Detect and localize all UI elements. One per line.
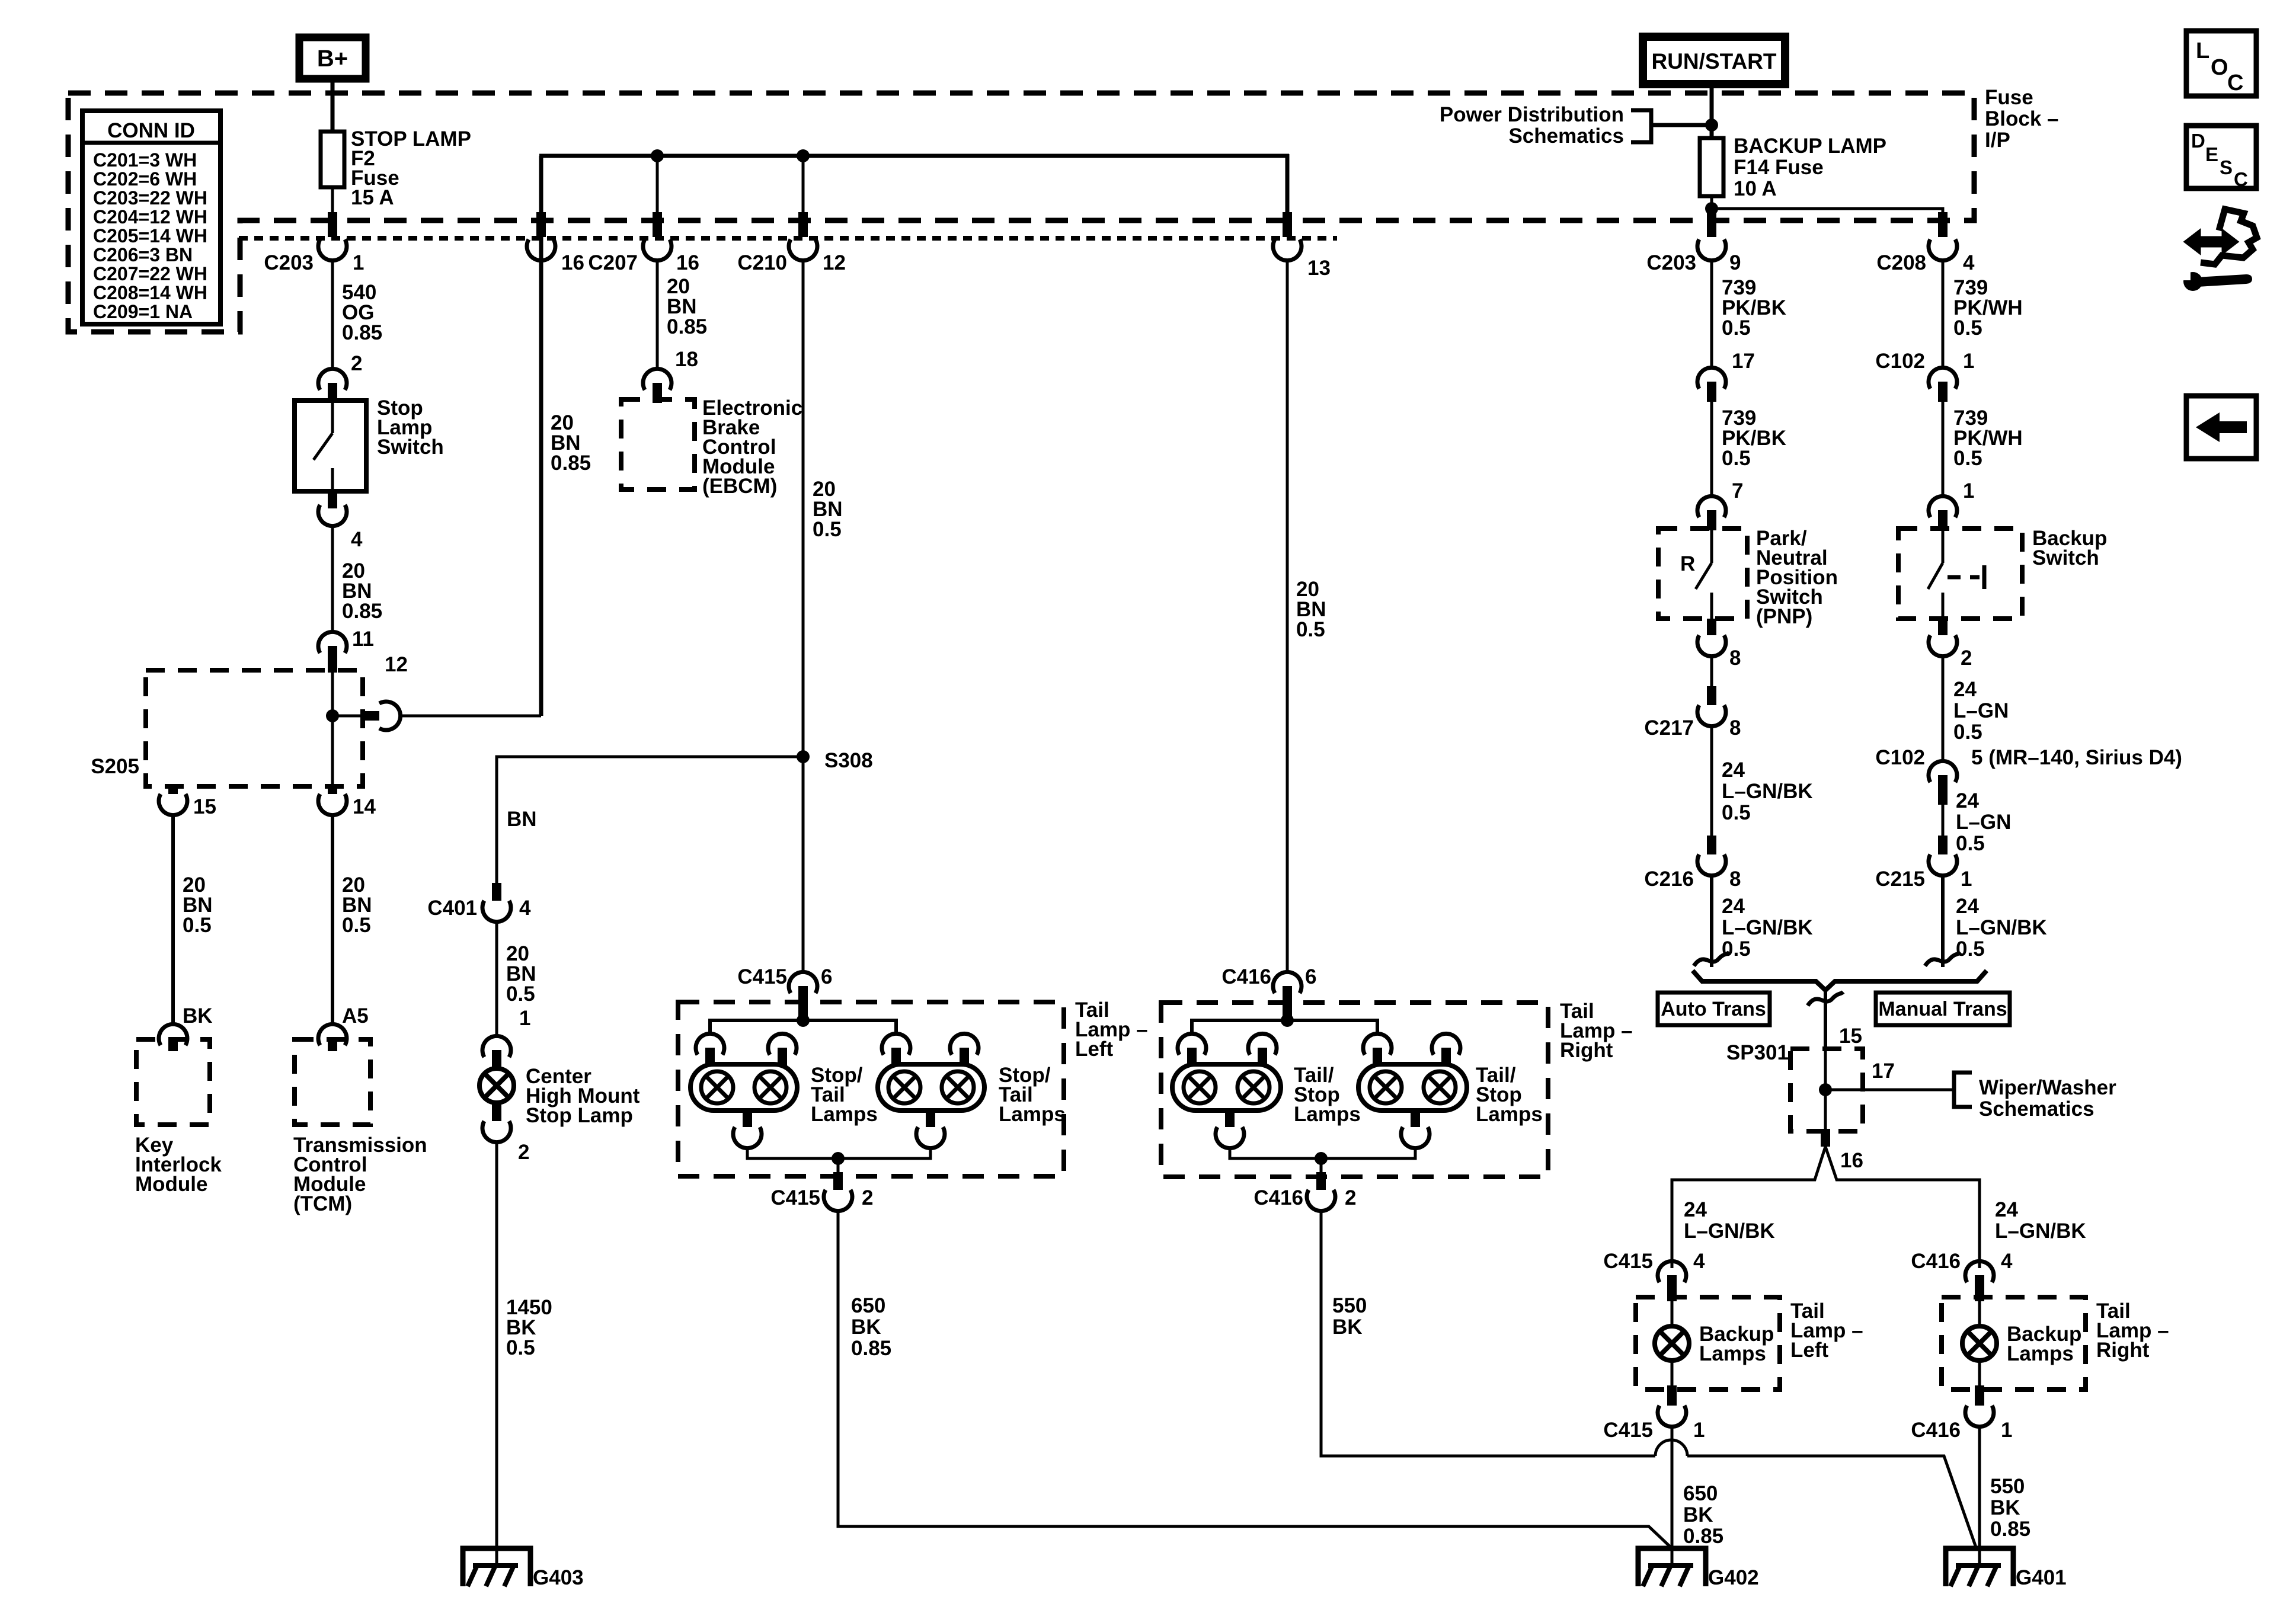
- transmission control module dashed box: [295, 1039, 370, 1125]
- stop/tail lamp 1 left pin: [696, 1033, 724, 1055]
- svg-text:0.85: 0.85: [342, 321, 382, 344]
- left tail lamp top bus: [710, 1020, 896, 1035]
- CONN ID table: [82, 111, 220, 324]
- tail/stop lamp 2 left pin: [1363, 1033, 1392, 1055]
- svg-text:1: 1: [1693, 1419, 1705, 1442]
- stop lamp switch box: [295, 401, 366, 491]
- svg-text:0.85: 0.85: [1683, 1525, 1723, 1548]
- svg-text:L–GN/BK: L–GN/BK: [1684, 1219, 1775, 1243]
- backup switch pin 2: [1938, 619, 1948, 635]
- connector C207 pin 16: [653, 212, 662, 237]
- stop/tail lamp bulb 1 (left tail lamp): [690, 1064, 797, 1110]
- svg-text:12: 12: [823, 251, 846, 274]
- svg-text:4: 4: [351, 528, 363, 551]
- svg-text:24: 24: [1956, 789, 1979, 812]
- wire 20 BN 0.5 to key interlock: [171, 815, 175, 1024]
- fuse F14 (BACKUP LAMP 10A): [1700, 138, 1723, 196]
- svg-text:C206=3 BN: C206=3 BN: [93, 244, 193, 265]
- connector C401 pin 4: [492, 883, 501, 901]
- svg-text:R: R: [1680, 552, 1695, 575]
- svg-text:L–GN/BK: L–GN/BK: [1722, 916, 1813, 939]
- tail lamp right dashed box: [1161, 1003, 1548, 1177]
- svg-text:C202=6 WH: C202=6 WH: [93, 168, 197, 190]
- svg-text:Lamps: Lamps: [811, 1103, 878, 1126]
- connector C203 pin 1: [328, 212, 337, 237]
- svg-text:BK: BK: [1990, 1496, 2020, 1519]
- top bus wire: [539, 154, 1289, 158]
- svg-text:BK: BK: [1683, 1503, 1713, 1526]
- connector C207 pin 16 (riser): [536, 212, 546, 237]
- svg-text:0.5: 0.5: [813, 518, 842, 541]
- junction F14 output: [1705, 202, 1718, 215]
- svg-text:0.5: 0.5: [1722, 937, 1751, 961]
- svg-text:0.5: 0.5: [342, 914, 371, 937]
- svg-text:15: 15: [193, 795, 216, 818]
- tail/stop lamp 2 bottom pin: [1411, 1110, 1420, 1127]
- svg-text:1: 1: [2001, 1419, 2012, 1442]
- svg-text:E: E: [2205, 143, 2218, 165]
- svg-text:24: 24: [1722, 758, 1745, 782]
- svg-text:Auto Trans: Auto Trans: [1661, 998, 1766, 1020]
- svg-text:C208=14 WH: C208=14 WH: [93, 282, 207, 303]
- CHMSL pin 2: [492, 1103, 501, 1121]
- svg-text:G401: G401: [2016, 1566, 2067, 1589]
- Auto Trans box: [1658, 993, 1770, 1025]
- junction in S205: [326, 709, 339, 722]
- svg-text:Wiper/Washer: Wiper/Washer: [1979, 1076, 2116, 1099]
- svg-text:Switch: Switch: [2032, 546, 2099, 569]
- ground G401: [1946, 1548, 2013, 1586]
- wire bus corner down to pin 13: [1285, 154, 1290, 220]
- wire-continues squiggle (right): [1925, 952, 1961, 966]
- svg-text:1: 1: [353, 251, 364, 274]
- stop/tail lamp 2 right pin (unconnected): [950, 1033, 978, 1055]
- svg-text:12: 12: [385, 653, 408, 676]
- svg-text:S308: S308: [824, 749, 873, 772]
- EBCM dashed box: [621, 399, 695, 489]
- svg-text:G403: G403: [533, 1566, 584, 1589]
- svg-text:0.5: 0.5: [1956, 937, 1985, 961]
- svg-text:4: 4: [2001, 1250, 2013, 1273]
- svg-text:C208: C208: [1876, 251, 1926, 274]
- svg-text:I/P: I/P: [1985, 129, 2010, 152]
- wire 20 BN to S205: [331, 526, 334, 632]
- svg-text:Right: Right: [1560, 1039, 1613, 1062]
- svg-text:0.5: 0.5: [1953, 316, 1982, 340]
- connector C416 pin 1: [1975, 1385, 1984, 1406]
- wire SP301-16 split to backup lamps: [1672, 1147, 1825, 1268]
- svg-text:17: 17: [1732, 350, 1755, 373]
- connector C415 pin 1: [1667, 1385, 1677, 1406]
- svg-text:16: 16: [561, 251, 584, 274]
- left tail lamp bottom bus: [747, 1148, 930, 1158]
- svg-text:0.5: 0.5: [1953, 721, 1982, 744]
- tail/stop lamp bulb 2 (right tail lamp): [1358, 1064, 1467, 1110]
- svg-text:C102: C102: [1875, 350, 1925, 373]
- svg-text:4: 4: [1963, 251, 1975, 274]
- sidebar locate-tool icon (arrow + part outline + wrench): [2185, 230, 2238, 254]
- svg-text:Lamps: Lamps: [1476, 1103, 1543, 1126]
- svg-text:C415: C415: [737, 965, 787, 988]
- connector C210 pin 12: [798, 212, 808, 237]
- svg-text:RUN/START: RUN/START: [1651, 49, 1776, 73]
- tail/stop lamp bulb 1 (right tail lamp): [1172, 1064, 1281, 1110]
- wire 650 BK 0.85 to G402: [1671, 1427, 1674, 1566]
- wire into left tail lamp junction: [802, 1002, 805, 1020]
- svg-text:Lamps: Lamps: [1294, 1103, 1361, 1126]
- svg-text:0.85: 0.85: [342, 600, 382, 623]
- wire S205-12 to riser: [399, 715, 541, 718]
- svg-text:550: 550: [1990, 1475, 2025, 1498]
- svg-text:D: D: [2191, 130, 2205, 152]
- stop lamp switch pin 4: [328, 491, 337, 508]
- in-line connector dotted boundary: [239, 236, 1337, 241]
- svg-text:0.85: 0.85: [851, 1337, 891, 1360]
- connector C416 pin 2: [1316, 1172, 1326, 1190]
- svg-text:C217: C217: [1644, 716, 1694, 740]
- svg-text:4: 4: [519, 897, 531, 920]
- svg-text:C401: C401: [427, 897, 477, 920]
- svg-text:Power Distribution: Power Distribution: [1440, 103, 1624, 126]
- wire 739 PK/WH to backup switch: [1942, 402, 1945, 497]
- wire F14 output to C208 branch: [1712, 209, 1943, 220]
- svg-text:C215: C215: [1875, 868, 1925, 891]
- wire 24 L-GN to C215: [1942, 805, 1945, 837]
- svg-text:2: 2: [518, 1141, 529, 1164]
- wire PNP-8 to C217-8: [1710, 657, 1713, 687]
- svg-text:Switch: Switch: [377, 436, 444, 459]
- svg-text:F14 Fuse: F14 Fuse: [1734, 156, 1824, 179]
- tail/stop lamp 2 right pin (unconnected): [1432, 1033, 1460, 1055]
- sidebar back-arrow box: [2186, 396, 2256, 459]
- connector C215 pin 1: [1938, 836, 1948, 854]
- svg-text:C203: C203: [1646, 251, 1696, 274]
- svg-text:L–GN: L–GN: [1953, 699, 2009, 722]
- svg-text:BK: BK: [1332, 1315, 1363, 1339]
- wire 20 BN 0.5 to S308: [802, 261, 805, 757]
- connector C216 pin 8: [1707, 836, 1716, 854]
- wire 20 BN to EBCM: [656, 261, 659, 369]
- svg-text:C207=22 WH: C207=22 WH: [93, 263, 207, 284]
- RUN/START power feed box: [1643, 37, 1785, 84]
- svg-text:Fuse: Fuse: [1985, 86, 2033, 109]
- svg-text:BK: BK: [851, 1315, 881, 1339]
- wire 24 L-GN/BK to C216: [1710, 726, 1713, 837]
- wire hop over backup-lamp ground wire: [1655, 1440, 1687, 1456]
- fuse F2 (STOP LAMP 15A): [321, 132, 344, 187]
- svg-text:SP301: SP301: [1726, 1041, 1789, 1064]
- svg-text:(TCM): (TCM): [293, 1192, 352, 1215]
- key interlock module dashed box: [136, 1039, 210, 1125]
- splice S205 dashed box: [146, 670, 363, 786]
- svg-text:0.5: 0.5: [1296, 618, 1325, 641]
- B+ power feed box: [299, 37, 366, 79]
- svg-text:11: 11: [352, 628, 374, 651]
- wire fuse F2 to connector C203 pin 1: [331, 187, 334, 220]
- svg-text:C201=3 WH: C201=3 WH: [93, 149, 197, 171]
- svg-text:A5: A5: [342, 1004, 369, 1028]
- svg-text:Lamps: Lamps: [2007, 1342, 2074, 1365]
- backup lamp right dashed box: [1942, 1297, 2086, 1390]
- svg-text:550: 550: [1332, 1294, 1367, 1317]
- junction bus/S308 column: [797, 149, 810, 162]
- wire to C416 pin 2: [1320, 1158, 1323, 1177]
- wire fuse F14 down: [1710, 196, 1713, 220]
- ground G403: [463, 1548, 530, 1586]
- stop/tail lamp bulb 2 (left tail lamp): [878, 1064, 984, 1110]
- svg-text:C415: C415: [770, 1186, 820, 1209]
- svg-text:1: 1: [519, 1007, 530, 1030]
- wire-continues squiggle (left): [1694, 952, 1729, 966]
- svg-text:0.5: 0.5: [506, 1336, 535, 1359]
- wire bus to C210 pin 12: [802, 156, 805, 220]
- svg-text:Lamps: Lamps: [999, 1103, 1066, 1126]
- wire 20 BN 0.5 to C416 pin 6: [1286, 261, 1289, 972]
- Manual Trans box: [1876, 993, 2010, 1025]
- backup switch dashed box: [1898, 529, 2022, 619]
- wire inside S205: [331, 670, 334, 786]
- svg-text:L–GN/BK: L–GN/BK: [1722, 780, 1813, 803]
- splice S205 pin 14: [328, 786, 337, 794]
- wire B+ to fuse F2: [331, 79, 335, 132]
- svg-text:CONN ID: CONN ID: [107, 119, 195, 142]
- svg-text:Schematics: Schematics: [1508, 124, 1624, 148]
- wire S308 down to C415 pin 6: [802, 757, 805, 972]
- svg-text:24: 24: [1722, 895, 1745, 918]
- svg-text:2: 2: [351, 352, 362, 375]
- svg-text:O: O: [2211, 55, 2228, 80]
- svg-text:C203: C203: [264, 251, 314, 274]
- tail/stop lamp 1 right pin (unconnected): [1248, 1033, 1277, 1055]
- key interlock module pin: [159, 1024, 187, 1045]
- svg-text:10 A: 10 A: [1734, 177, 1777, 200]
- svg-text:0.5: 0.5: [1956, 832, 1985, 855]
- wire RUN/START down to fuse F14: [1710, 84, 1714, 138]
- tail/stop lamp 1 bottom pin: [1225, 1110, 1235, 1127]
- connector C203 pin 9: [1707, 212, 1716, 237]
- center high mount stop lamp bulb: [479, 1068, 514, 1103]
- svg-text:C416: C416: [1911, 1419, 1961, 1442]
- wire through SP301: [1824, 1049, 1827, 1131]
- svg-text:Module: Module: [135, 1173, 207, 1196]
- svg-text:S: S: [2220, 156, 2233, 178]
- SP301 pin 16: [1821, 1129, 1830, 1147]
- svg-text:15 A: 15 A: [351, 186, 394, 209]
- svg-text:C204=12 WH: C204=12 WH: [93, 206, 207, 228]
- wire 24 L-GN/BK to auto-trans brace: [1710, 876, 1713, 967]
- svg-text:0.5: 0.5: [506, 982, 535, 1006]
- svg-text:B+: B+: [317, 46, 348, 72]
- park/neutral position switch dashed box: [1658, 529, 1747, 619]
- splice pack SP301 dashed box: [1790, 1049, 1863, 1131]
- wire 550 BK 0.85 to G401: [1978, 1427, 1981, 1566]
- svg-text:0.5: 0.5: [1722, 316, 1751, 340]
- svg-text:5 (MR–140, Sirius D4): 5 (MR–140, Sirius D4): [1971, 746, 2182, 769]
- svg-text:24: 24: [1684, 1198, 1707, 1221]
- svg-text:13: 13: [1307, 257, 1331, 280]
- wire-continues squiggle (center): [1808, 992, 1843, 1006]
- svg-text:L: L: [2196, 39, 2209, 63]
- wire brace to SP301 pin 15: [1824, 990, 1827, 1049]
- svg-text:Manual Trans: Manual Trans: [1878, 998, 2007, 1020]
- svg-text:C416: C416: [1253, 1186, 1303, 1209]
- sidebar DESC box: [2186, 126, 2256, 188]
- svg-text:16: 16: [1840, 1149, 1863, 1172]
- svg-text:C: C: [2227, 71, 2243, 95]
- svg-text:(EBCM): (EBCM): [702, 475, 777, 498]
- TCM pin: [318, 1024, 347, 1045]
- svg-text:Block –: Block –: [1985, 107, 2059, 130]
- splice S205 pin 15: [172, 786, 175, 794]
- wire 650 BK 0.85 to G402: [838, 1211, 1671, 1548]
- svg-text:BACKUP LAMP: BACKUP LAMP: [1734, 135, 1886, 158]
- svg-text:L–GN/BK: L–GN/BK: [1995, 1219, 2086, 1243]
- svg-text:8: 8: [1729, 716, 1741, 740]
- svg-text:4: 4: [1693, 1250, 1705, 1273]
- ground G402: [1638, 1548, 1706, 1586]
- svg-text:C416: C416: [1911, 1250, 1961, 1273]
- right tail lamp bottom bus: [1230, 1148, 1415, 1158]
- svg-text:17: 17: [1872, 1060, 1895, 1083]
- svg-text:(PNP): (PNP): [1756, 605, 1812, 628]
- svg-text:0.5: 0.5: [183, 914, 212, 937]
- wire S308 to CHMSL branch: [497, 757, 803, 894]
- svg-text:C216: C216: [1644, 868, 1694, 891]
- svg-text:1: 1: [1961, 868, 1972, 891]
- svg-text:G402: G402: [1708, 1566, 1759, 1589]
- svg-text:BN: BN: [507, 808, 537, 831]
- svg-text:Lamps: Lamps: [1699, 1342, 1766, 1365]
- svg-text:0.85: 0.85: [667, 315, 707, 338]
- stop/tail lamp 2 bottom pin: [926, 1110, 935, 1127]
- stop/tail lamp 2 left pin: [882, 1033, 910, 1055]
- wire 24 L-GN to C102-5: [1942, 657, 1945, 761]
- svg-text:C415: C415: [1603, 1250, 1653, 1273]
- connector C415 pin 2: [833, 1172, 843, 1190]
- backup lamp bulb (right): [1978, 1301, 1981, 1326]
- svg-text:L–GN: L–GN: [1956, 811, 2011, 834]
- svg-text:14: 14: [353, 795, 376, 818]
- svg-text:8: 8: [1729, 868, 1741, 891]
- svg-text:18: 18: [675, 348, 698, 371]
- wire 550 BK to G401: [1321, 1211, 1655, 1456]
- backup switch blade and linkage: [1942, 529, 1945, 563]
- wire to C415 pin 2: [837, 1158, 840, 1176]
- junction bus/EBCM column: [651, 149, 664, 162]
- wire 1450 BK 0.5 to G403: [495, 1142, 498, 1566]
- svg-text:C203=22 WH: C203=22 WH: [93, 187, 207, 209]
- svg-text:24: 24: [1956, 895, 1979, 918]
- svg-text:Left: Left: [1075, 1038, 1114, 1061]
- stop/tail lamp 1 bottom pin: [743, 1110, 752, 1127]
- wire into right tail lamp junction: [1286, 1003, 1289, 1020]
- svg-text:2: 2: [862, 1186, 873, 1209]
- connector pin 13: [1283, 212, 1292, 237]
- svg-text:6: 6: [1305, 965, 1316, 988]
- svg-text:Left: Left: [1790, 1339, 1829, 1362]
- riser wire to top bus: [539, 156, 543, 716]
- tail/stop lamp 1 left pin: [1178, 1033, 1206, 1055]
- right tail lamp top bus: [1192, 1020, 1377, 1035]
- fuse block I/P dashed outline: [68, 93, 1974, 332]
- backup lamp bulb (left): [1671, 1301, 1674, 1326]
- svg-text:C416: C416: [1221, 965, 1271, 988]
- svg-text:0.5: 0.5: [1722, 801, 1751, 824]
- svg-text:C102: C102: [1875, 746, 1925, 769]
- svg-text:L–GN/BK: L–GN/BK: [1956, 916, 2047, 939]
- svg-text:7: 7: [1732, 479, 1743, 502]
- svg-text:1: 1: [1963, 479, 1974, 502]
- svg-text:C207: C207: [588, 251, 638, 274]
- svg-text:Schematics: Schematics: [1979, 1097, 2094, 1121]
- connector C208 pin 4: [1938, 212, 1948, 237]
- svg-text:1: 1: [1963, 350, 1974, 373]
- wire 540 OG to stop lamp switch: [331, 261, 334, 369]
- wire 739 PK/WH to C102: [1942, 261, 1945, 367]
- wire 20 BN 0.5 to TCM: [331, 815, 334, 1024]
- svg-text:S205: S205: [91, 755, 139, 778]
- stop/tail lamp 1 right pin (unconnected): [768, 1033, 797, 1055]
- svg-text:2: 2: [1345, 1186, 1356, 1209]
- wire 739 PK/BK to C217: [1710, 261, 1713, 367]
- svg-text:C415: C415: [1603, 1419, 1653, 1442]
- svg-text:6: 6: [821, 965, 832, 988]
- auto/manual trans selection brace: [1693, 971, 1987, 990]
- svg-text:C210: C210: [737, 251, 787, 274]
- connector C217 pin 8: [1707, 686, 1716, 705]
- svg-text:C205=14 WH: C205=14 WH: [93, 225, 207, 247]
- svg-text:C: C: [2234, 168, 2248, 190]
- svg-text:15: 15: [1839, 1025, 1862, 1048]
- wire 20 BN 0.5 to CHMSL: [495, 922, 498, 1036]
- svg-text:0.5: 0.5: [1722, 447, 1751, 470]
- sidebar LOC box: [2186, 31, 2256, 96]
- backup lamp left dashed box: [1636, 1297, 1780, 1390]
- wire bus to C207 pin 16: [656, 156, 659, 220]
- svg-text:2: 2: [1961, 646, 1972, 670]
- svg-text:0.85: 0.85: [1990, 1518, 2030, 1541]
- tail lamp left dashed box: [678, 1002, 1064, 1176]
- splice S308: [797, 750, 810, 763]
- junction power distribution tap: [1705, 119, 1718, 132]
- svg-text:650: 650: [1683, 1482, 1718, 1505]
- svg-text:0.5: 0.5: [1953, 447, 1982, 470]
- svg-text:Right: Right: [2096, 1339, 2150, 1362]
- svg-text:650: 650: [851, 1294, 885, 1317]
- svg-text:9: 9: [1729, 251, 1741, 274]
- svg-text:24: 24: [1995, 1198, 2018, 1221]
- svg-text:BK: BK: [183, 1004, 213, 1028]
- svg-text:24: 24: [1953, 678, 1977, 701]
- svg-text:16: 16: [676, 251, 699, 274]
- wire 739 PK/BK to PNP switch: [1710, 402, 1713, 497]
- svg-text:C209=1 NA: C209=1 NA: [93, 301, 193, 322]
- svg-text:8: 8: [1729, 646, 1741, 670]
- svg-text:0.85: 0.85: [551, 452, 591, 475]
- svg-text:Stop Lamp: Stop Lamp: [526, 1104, 633, 1127]
- wire 24 L-GN/BK to manual-trans brace: [1941, 876, 1945, 967]
- PNP switch pin 8: [1707, 619, 1716, 635]
- splice S205 pin 12: [360, 711, 379, 721]
